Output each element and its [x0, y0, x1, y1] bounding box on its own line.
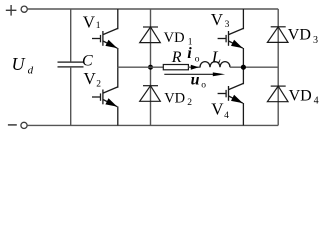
node junction dot left (load tap) — [148, 65, 153, 70]
transistor V2 (IGBT, lower left) — [92, 67, 118, 125]
diode VD1 — [140, 27, 161, 43]
wire after resistor — [188, 66, 200, 68]
inductor L coils — [200, 62, 230, 68]
uo voltage arrow — [164, 72, 225, 76]
svg-text:VD: VD — [288, 27, 311, 44]
svg-text:4: 4 — [314, 95, 319, 106]
negative terminal circle — [21, 122, 27, 128]
VD3 label — [288, 27, 318, 47]
svg-text:V: V — [211, 10, 224, 29]
wire from inductor to right midpoint — [230, 66, 278, 68]
VD2 label — [164, 90, 192, 108]
svg-text:d: d — [28, 64, 34, 76]
V4 label — [211, 100, 229, 122]
svg-text:V: V — [84, 69, 97, 88]
diode VD3/VD4 branch wire — [277, 9, 279, 125]
svg-text:V: V — [83, 12, 96, 31]
io label — [187, 45, 200, 65]
svg-text:VD: VD — [164, 30, 185, 46]
V2 label — [84, 69, 102, 89]
load wire from bridge left midpoint — [118, 66, 164, 68]
VD4 label — [289, 87, 319, 106]
V3 label — [211, 10, 230, 30]
VD1 label — [164, 30, 193, 48]
io current arrow — [191, 65, 199, 70]
capacitor C branch upper wire — [70, 9, 72, 62]
svg-text:2: 2 — [96, 79, 101, 89]
V1 label — [83, 12, 101, 31]
top rail wire — [27, 8, 278, 10]
svg-text:VD: VD — [289, 87, 312, 104]
positive terminal circle — [21, 6, 27, 12]
svg-text:R: R — [171, 49, 182, 66]
uo label — [191, 72, 207, 91]
transistor V1 (IGBT, upper left) — [92, 9, 118, 67]
Ud label — [12, 54, 34, 76]
resistor R box — [163, 65, 188, 70]
svg-text:3: 3 — [313, 35, 318, 46]
diode VD4 — [267, 86, 288, 102]
diode VD2 — [140, 86, 161, 102]
svg-text:i: i — [187, 45, 192, 62]
svg-text:3: 3 — [225, 20, 230, 30]
svg-text:u: u — [191, 72, 200, 89]
transistor V4 (IGBT, lower right) — [218, 67, 244, 125]
capacitor C plates — [58, 62, 84, 67]
minus sign of DC source — [8, 124, 17, 126]
node junction dot right (load tap) — [241, 65, 246, 70]
bottom rail wire — [27, 124, 278, 126]
svg-text:VD: VD — [164, 90, 185, 106]
svg-text:2: 2 — [187, 98, 192, 108]
svg-text:o: o — [195, 55, 200, 65]
plus sign of DC source — [6, 5, 17, 16]
diode VD1/VD2 branch wire — [150, 9, 152, 125]
svg-text:C: C — [82, 53, 93, 70]
diode VD3 — [267, 27, 288, 43]
svg-text:4: 4 — [224, 111, 229, 121]
svg-text:1: 1 — [96, 21, 101, 31]
svg-text:L: L — [211, 47, 221, 66]
capacitor C branch lower wire — [70, 67, 72, 126]
svg-text:o: o — [201, 81, 206, 91]
transistor V3 (IGBT, upper right) — [218, 9, 244, 67]
svg-text:V: V — [211, 100, 224, 119]
svg-text:U: U — [12, 54, 26, 74]
